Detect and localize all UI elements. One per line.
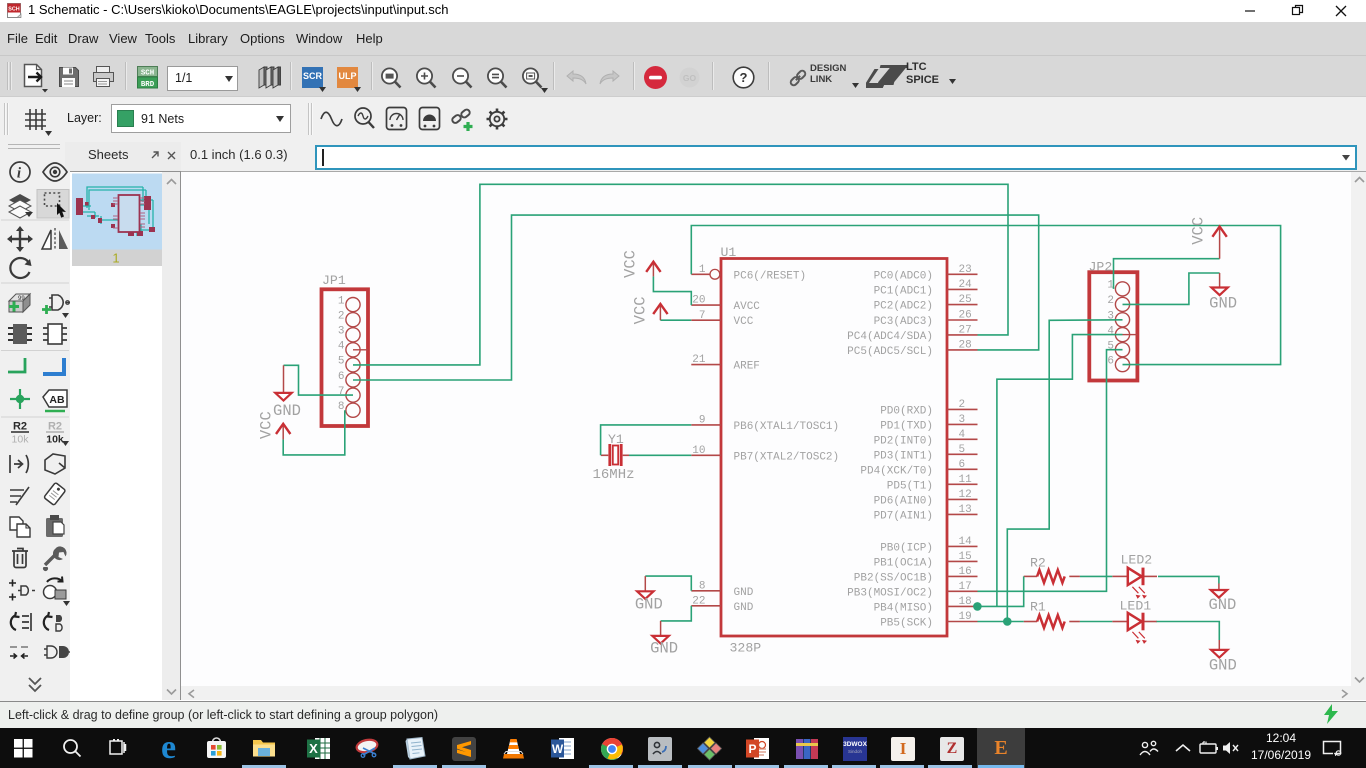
svg-text:PD4(XCK/T0): PD4(XCK/T0) — [860, 465, 933, 477]
svg-text:R1: R1 — [1030, 600, 1046, 615]
U1 pin 16 PB2(SS/OC1B) — [854, 566, 978, 584]
supply symbol VCC at U1 pin7 — [632, 296, 668, 324]
svg-text:JP2: JP2 — [1089, 260, 1113, 275]
U1 pin 8 GND — [691, 580, 753, 598]
svg-text:1: 1 — [338, 295, 345, 307]
svg-text:GND: GND — [273, 402, 301, 420]
U1 pin 23 PC0(ADC0) — [874, 264, 978, 282]
resistor R2 — [1024, 570, 1080, 583]
svg-text:GND: GND — [734, 587, 754, 599]
U1 pin 28 PC5(ADC5/SCL) — [847, 340, 977, 358]
U1 pin 26 PC3(ADC3) — [874, 310, 978, 328]
svg-text:GND: GND — [1209, 657, 1237, 675]
JP1 pad 6 — [338, 371, 360, 387]
svg-text:AB: AB — [49, 394, 65, 406]
svg-text:9: 9 — [699, 415, 706, 427]
wire net MISO branch to JP2 pad4 — [997, 335, 1123, 607]
svg-text:JP1: JP1 — [322, 273, 346, 288]
svg-text:13: 13 — [959, 504, 972, 516]
wire R1 to LED1 — [1080, 621, 1112, 623]
wire LED1 to GND — [1157, 622, 1220, 641]
JP1 pad 5 — [338, 356, 360, 372]
U1 pin 14 PB0(ICP) — [880, 536, 977, 554]
JP2 pad 6 — [1107, 355, 1129, 371]
wire net SCK branch to JP2 pad3 — [1007, 320, 1122, 622]
svg-text:4: 4 — [959, 429, 966, 441]
svg-text:328P: 328P — [730, 641, 762, 656]
junction on net MISO at U1 pin18 — [973, 602, 982, 611]
svg-text:PD0(RXD): PD0(RXD) — [880, 405, 933, 417]
connector JP2 — [1089, 272, 1137, 380]
wire net SCK: U1 pin19 to R1 — [978, 621, 1024, 623]
svg-text:5: 5 — [1107, 341, 1114, 353]
svg-text:1: 1 — [112, 251, 119, 266]
U1 pin 5 PD3(INT1) — [874, 444, 978, 462]
supply symbol VCC at JP1 — [257, 411, 290, 439]
svg-text:i: i — [17, 166, 22, 182]
JP1 pad 3 — [338, 326, 360, 342]
svg-text:LED2: LED2 — [1121, 553, 1153, 568]
svg-text:19: 19 — [959, 611, 972, 623]
svg-text:PD3(INT1): PD3(INT1) — [874, 450, 933, 462]
svg-text:26: 26 — [959, 310, 972, 322]
svg-text:?: ? — [740, 70, 748, 85]
wire net SDA: JP1 pad5 to U1 pin27 — [353, 184, 1008, 365]
svg-text:18: 18 — [959, 596, 972, 608]
svg-text:20: 20 — [692, 295, 705, 307]
svg-text:PC6(/RESET): PC6(/RESET) — [734, 270, 807, 282]
JP2 pad 4 — [1107, 325, 1137, 341]
svg-text:11: 11 — [959, 474, 973, 486]
U1 pin 19 PB5(SCK) — [880, 611, 977, 629]
svg-text:GND: GND — [635, 596, 663, 614]
U1 pin 13 PD7(AIN1) — [874, 504, 978, 522]
ground symbol GND at JP2 — [1209, 273, 1237, 313]
wire R2 to LED2 — [1080, 575, 1112, 577]
U1 pin 7 VCC — [691, 310, 753, 328]
U1 pin 2 PD0(RXD) — [880, 399, 977, 417]
svg-text:3: 3 — [338, 326, 345, 338]
U1 pin 3 PD1(TXD) — [880, 414, 977, 432]
svg-text:6: 6 — [959, 459, 966, 471]
svg-text:6: 6 — [1107, 355, 1114, 367]
JP2 pad 2 — [1107, 295, 1129, 311]
svg-text:PB7(XTAL2/TOSC2): PB7(XTAL2/TOSC2) — [734, 451, 840, 463]
U1 pin 25 PC2(ADC2) — [874, 294, 978, 312]
svg-text:5: 5 — [338, 356, 345, 368]
JP2 pad 3 — [1107, 311, 1129, 327]
JP1 pad 1 — [338, 295, 360, 311]
LED LED2 — [1112, 568, 1157, 599]
svg-text:7: 7 — [699, 310, 706, 322]
svg-text:R2: R2 — [13, 421, 27, 433]
svg-text:25: 25 — [959, 294, 972, 306]
svg-text:12: 12 — [959, 489, 972, 501]
svg-text:PC0(ADC0): PC0(ADC0) — [874, 270, 933, 282]
JP1 pad 4 — [338, 341, 368, 357]
svg-text:5: 5 — [959, 444, 966, 456]
crystal Y1 16MHz — [601, 444, 629, 466]
wire net XTAL1: U1 pin9 to Y1 — [601, 425, 692, 455]
svg-text:PD5(T1): PD5(T1) — [887, 480, 933, 492]
svg-text:PC5(ADC5/SCL): PC5(ADC5/SCL) — [847, 346, 933, 358]
svg-text:AREF: AREF — [734, 361, 760, 373]
svg-text:17: 17 — [959, 581, 972, 593]
svg-text:PB6(XTAL1/TOSC1): PB6(XTAL1/TOSC1) — [734, 421, 840, 433]
svg-text:BRD: BRD — [141, 81, 155, 89]
svg-text:VCC: VCC — [621, 250, 639, 278]
svg-text:6: 6 — [338, 371, 345, 383]
U1 pin 1 PC6(/RESET) — [691, 264, 806, 282]
wire net VCC to U1 pin20 AVCC — [653, 276, 691, 305]
svg-text:SCH: SCH — [8, 7, 19, 13]
U1 pin 9 PB6(XTAL1/TOSC1) — [691, 415, 839, 433]
svg-text:28: 28 — [959, 340, 972, 352]
svg-text:2: 2 — [959, 399, 966, 411]
wire net SCL: JP1 pad6 to U1 pin28 — [353, 215, 1039, 380]
wire LED2 to GND — [1158, 576, 1219, 583]
U1 pin 12 PD6(AIN0) — [874, 489, 978, 507]
JP2 pad 5 — [1107, 341, 1129, 357]
U1 pin 22 GND — [691, 595, 753, 613]
svg-text:LED1: LED1 — [1120, 599, 1152, 614]
resistor R1 — [1024, 615, 1080, 628]
supply symbol VCC at JP2 — [1189, 217, 1227, 259]
svg-text:23: 23 — [959, 264, 972, 276]
svg-text:GND: GND — [734, 602, 754, 614]
svg-text:27: 27 — [959, 325, 972, 337]
svg-text:VCC: VCC — [734, 316, 754, 328]
JP1 pad 8 — [338, 401, 360, 417]
wire net MISO: U1 pin18 to R2 — [978, 576, 1024, 606]
svg-text:PB5(SCK): PB5(SCK) — [880, 618, 933, 630]
ground symbol GND at U1 pin22 — [650, 621, 678, 658]
wire net GND to U1 pin8 — [645, 576, 691, 591]
U1 pin 4 PD2(INT0) — [874, 429, 978, 447]
U1 pin 21 AREF — [691, 354, 760, 372]
U1 pin 24 PC1(ADC1) — [874, 279, 978, 297]
svg-text:4: 4 — [1107, 325, 1114, 337]
wire net /RESET: U1 pin1 to JP2 pad6 — [691, 226, 1280, 365]
svg-text:VCC: VCC — [1189, 217, 1207, 245]
svg-text:X: X — [309, 741, 318, 756]
wire net MOSI: U1 pin17 to JP2 pad5 — [978, 350, 1123, 592]
U1 pin 20 AVCC — [691, 295, 760, 313]
svg-text:PC2(ADC2): PC2(ADC2) — [874, 301, 933, 313]
JP2 pad 1 — [1107, 280, 1129, 296]
svg-text:PD2(INT0): PD2(INT0) — [874, 435, 933, 447]
JP1 pad 7 — [338, 386, 360, 402]
svg-text:PC3(ADC3): PC3(ADC3) — [874, 316, 933, 328]
wire net GND to U1 pin22 — [661, 606, 692, 621]
svg-text:AVCC: AVCC — [734, 301, 761, 313]
svg-text:W: W — [552, 742, 564, 756]
wire net XTAL2: Y1 to U1 pin10 — [629, 454, 691, 456]
junction on net SCK — [1003, 617, 1012, 626]
svg-text:10k: 10k — [46, 434, 64, 446]
svg-text:P: P — [748, 742, 756, 756]
JP1 pad 2 — [338, 311, 360, 327]
svg-text:PD7(AIN1): PD7(AIN1) — [874, 510, 933, 522]
U1 pin 10 PB7(XTAL2/TOSC2) — [691, 445, 839, 463]
U1 pin 27 PC4(ADC4/SDA) — [847, 325, 977, 343]
svg-text:8: 8 — [699, 580, 706, 592]
svg-text:U1: U1 — [721, 245, 737, 260]
svg-text:PB0(ICP): PB0(ICP) — [880, 542, 933, 554]
svg-text:10k: 10k — [12, 434, 30, 446]
svg-text:8: 8 — [338, 401, 345, 413]
svg-text:PB3(MOSI/OC2): PB3(MOSI/OC2) — [847, 587, 933, 599]
svg-text:PB2(SS/OC1B): PB2(SS/OC1B) — [854, 572, 933, 584]
ground symbol GND at JP1 — [273, 365, 301, 420]
U1 pin 15 PB1(OC1A) — [874, 551, 978, 569]
wire net VCC to JP2 pad1 — [1114, 259, 1220, 289]
svg-text:PD1(TXD): PD1(TXD) — [880, 420, 933, 432]
svg-text:15: 15 — [959, 551, 972, 563]
svg-text:3: 3 — [1107, 311, 1114, 323]
svg-text:24: 24 — [959, 279, 973, 291]
svg-text:2: 2 — [338, 311, 345, 323]
supply symbol VCC at U1 pin20 — [621, 250, 660, 278]
svg-text:16: 16 — [959, 566, 972, 578]
svg-text:10: 10 — [692, 445, 705, 457]
svg-text:PD6(AIN0): PD6(AIN0) — [874, 495, 933, 507]
ground symbol GND at LED2 — [1208, 584, 1236, 615]
ground symbol GND at LED1 — [1209, 640, 1237, 675]
svg-text:3: 3 — [959, 414, 966, 426]
svg-text:22: 22 — [692, 595, 705, 607]
U1 pin 18 PB4(MISO) — [874, 596, 978, 614]
wire net VCC to U1 pin7 — [660, 319, 691, 321]
svg-text:GND: GND — [1209, 295, 1237, 313]
svg-text:PB4(MISO): PB4(MISO) — [874, 602, 933, 614]
svg-text:PC4(ADC4/SDA): PC4(ADC4/SDA) — [847, 331, 933, 343]
svg-text:R2: R2 — [1030, 556, 1046, 571]
svg-text:14: 14 — [959, 536, 973, 548]
U1 pin 17 PB3(MOSI/OC2) — [847, 581, 977, 599]
svg-text:2: 2 — [1107, 295, 1114, 307]
svg-text:PB1(OC1A): PB1(OC1A) — [874, 557, 933, 569]
U1 pin 11 PD5(T1) — [887, 474, 978, 492]
LED LED1 — [1112, 613, 1157, 644]
wire net GND to JP2 pad2 — [1123, 273, 1220, 304]
connector JP1 — [322, 289, 369, 426]
svg-text:GND: GND — [1208, 596, 1236, 614]
svg-text:SCH: SCH — [141, 70, 154, 78]
svg-text:21: 21 — [692, 354, 706, 366]
svg-text:16MHz: 16MHz — [593, 467, 635, 483]
svg-text:PC1(ADC1): PC1(ADC1) — [874, 285, 933, 297]
svg-text:4: 4 — [338, 341, 345, 353]
svg-text:GND: GND — [650, 640, 678, 658]
IC U1 ATmega328P body — [721, 259, 947, 637]
svg-text:VCC: VCC — [632, 296, 650, 324]
svg-text:99: 99 — [18, 296, 25, 302]
svg-text:R2: R2 — [48, 421, 62, 433]
U1 pin 6 PD4(XCK/T0) — [860, 459, 977, 477]
ground symbol GND at U1 pin8 — [635, 576, 663, 613]
svg-text:1: 1 — [699, 264, 706, 276]
wire net GND to JP1 pad7 — [284, 365, 354, 395]
svg-text:7: 7 — [338, 386, 345, 398]
svg-text:Y1: Y1 — [608, 432, 624, 447]
svg-text:GO: GO — [683, 73, 697, 83]
wire net VCC to JP1 pad8 — [283, 410, 345, 455]
